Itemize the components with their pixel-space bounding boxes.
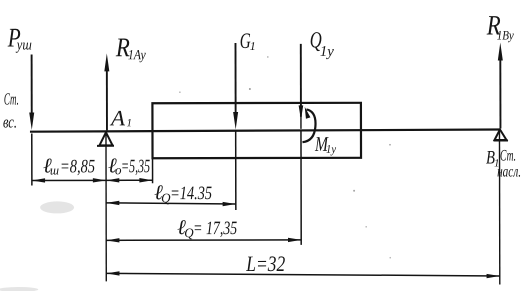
label Q_1y — [310, 27, 334, 60]
force Q_1y arrow — [298, 44, 303, 129]
reaction R_1By arrow — [498, 42, 503, 128]
dimension l_Q=14,35 — [106, 180, 236, 206]
svg-text:1у: 1у — [320, 44, 334, 60]
beam line — [30, 129, 500, 131]
label A1 — [109, 105, 132, 130]
force P_ush arrow — [29, 54, 34, 130]
svg-text:вс.: вс. — [3, 113, 17, 132]
load rectangle (body outline) — [152, 103, 361, 158]
reaction R_1Ay arrow — [104, 53, 109, 130]
label R_1Ay — [115, 32, 147, 63]
force G1 arrow — [233, 43, 238, 130]
dimension L=32 — [106, 251, 500, 280]
label R_1By — [486, 10, 514, 42]
svg-text:1у: 1у — [326, 142, 337, 156]
extension line at G — [235, 131, 237, 210]
svg-text:1Ву: 1Ву — [497, 27, 514, 42]
support A (pin) — [97, 132, 114, 146]
svg-text:=14.35: =14.35 — [170, 183, 212, 204]
moment M_1y arc — [302, 107, 315, 142]
label St. nasl. (right) — [497, 147, 521, 180]
svg-text:L=32: L=32 — [245, 251, 285, 276]
svg-text:=5,35: =5,35 — [121, 156, 150, 177]
scan smudge — [0, 201, 74, 291]
scan specks — [179, 56, 391, 259]
label St. vs. (left) — [3, 90, 19, 132]
label P_ush — [7, 22, 32, 53]
svg-text:ш: ш — [50, 162, 59, 177]
svg-text:1: 1 — [250, 39, 256, 53]
svg-text:1: 1 — [126, 117, 132, 129]
extension line at left beam end — [31, 133, 33, 185]
dimension l_Q=17,35 — [106, 215, 301, 243]
svg-text:А: А — [109, 105, 126, 130]
label M_1y — [314, 132, 336, 156]
extension line at A — [105, 132, 107, 281]
svg-text:1Ау: 1Ау — [128, 48, 147, 63]
svg-text:уш: уш — [15, 37, 32, 53]
svg-text:насл.: насл. — [497, 163, 521, 180]
dimension l_o=5,35 — [106, 153, 153, 182]
extension line rect left edge — [152, 158, 154, 183]
svg-text:Ст.: Ст. — [4, 90, 19, 109]
label G1 — [240, 28, 256, 53]
svg-text:= 17,35: = 17,35 — [193, 218, 237, 239]
extension line at B — [498, 130, 500, 285]
support B (pin) — [493, 129, 508, 140]
dimension l_sh=8,85 — [32, 153, 106, 182]
extension line at Q — [300, 131, 302, 245]
label B1 — [486, 148, 500, 170]
svg-text:=8,85: =8,85 — [60, 156, 95, 177]
svg-text:Ст.: Ст. — [500, 147, 516, 164]
